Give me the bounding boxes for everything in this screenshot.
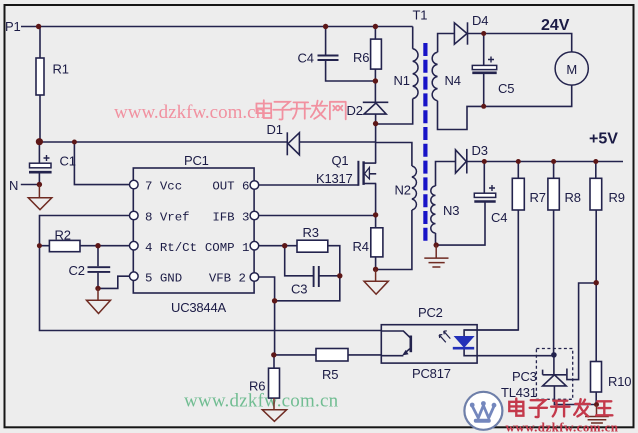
- resistor R1: [36, 58, 44, 95]
- wire snubber C4 branch: [326, 27, 376, 82]
- svg-text:PC3: PC3: [512, 369, 537, 384]
- svg-text:+5V: +5V: [589, 131, 618, 148]
- pin 3 circle: [250, 211, 259, 220]
- transistor Q1 K1317 MOSFET: [358, 161, 376, 186]
- wire N4 top to D4: [438, 34, 455, 53]
- wire R10 bottom: [595, 392, 597, 405]
- transformer T1 core: [423, 43, 427, 244]
- svg-text:D4: D4: [472, 13, 488, 28]
- svg-text:D1: D1: [267, 122, 283, 137]
- svg-text:C5: C5: [498, 81, 514, 96]
- wire C1 leads: [38, 142, 40, 185]
- svg-text:R2: R2: [55, 228, 71, 243]
- diode D2 clamp: [363, 102, 389, 114]
- resistor R8: [548, 178, 559, 210]
- wire N2 bottom: [376, 210, 412, 270]
- resistor R9: [590, 178, 602, 210]
- wire IFB3 to source node: [259, 215, 376, 217]
- motor M: [555, 52, 588, 85]
- wire VFB2 down to divider: [259, 277, 275, 355]
- svg-text:8 Vref: 8 Vref: [145, 210, 190, 224]
- wire R8 leads: [553, 162, 555, 355]
- TL431 symbol: [543, 370, 567, 386]
- wire branch to pin 7: [74, 142, 129, 185]
- resistor R3: [297, 240, 328, 252]
- svg-text:OUT 6: OUT 6: [212, 179, 249, 193]
- svg-text:R3: R3: [303, 225, 319, 240]
- svg-text:PC2: PC2: [418, 305, 443, 320]
- svg-text:T1: T1: [413, 8, 428, 23]
- wire R7 leads: [464, 162, 518, 331]
- svg-text:C1: C1: [60, 154, 76, 169]
- wire PC2 LED cathode to TL431: [464, 348, 554, 356]
- svg-text:24V: 24V: [541, 17, 570, 34]
- svg-text:R9: R9: [609, 190, 625, 205]
- PC2 LED: [453, 330, 519, 348]
- svg-text:www.dzkfw.com.cn: www.dzkfw.com.cn: [184, 391, 339, 412]
- capacitor C1 electrolytic: [29, 155, 52, 172]
- svg-text:C3: C3: [291, 282, 307, 297]
- winding N3: [431, 186, 436, 233]
- winding N4: [432, 52, 437, 100]
- svg-text:7 Vcc: 7 Vcc: [145, 179, 182, 193]
- svg-text:K1317: K1317: [316, 171, 353, 186]
- ground IEC below R10: [585, 405, 609, 424]
- winding N2: [412, 166, 417, 210]
- svg-text:C4: C4: [298, 51, 314, 66]
- svg-text:COMP 1: COMP 1: [205, 241, 250, 255]
- svg-text:PC817: PC817: [412, 366, 451, 381]
- resistor R7: [512, 178, 524, 210]
- wire 24V return via N4 bottom: [438, 85, 572, 129]
- wire Vcc rail to D1: [39, 141, 375, 143]
- svg-text:D2: D2: [347, 103, 363, 118]
- svg-text:C4: C4: [491, 210, 507, 225]
- svg-text:R7: R7: [530, 190, 546, 205]
- wire R2 leads and pin 4: [40, 245, 130, 247]
- svg-text:www.dzkfw.com.cn: www.dzkfw.com.cn: [114, 102, 266, 123]
- svg-text:N1: N1: [394, 73, 410, 88]
- wire N input: [21, 184, 40, 186]
- svg-text:N3: N3: [443, 203, 459, 218]
- ground below C2: [87, 288, 111, 313]
- svg-text:R6: R6: [249, 379, 265, 394]
- ground IEC below N3: [424, 245, 448, 267]
- PC2 light arrows: [439, 331, 450, 342]
- wire C3 branch: [285, 246, 340, 276]
- wire R1 leads: [39, 27, 41, 142]
- pin 6 circle: [250, 181, 259, 190]
- svg-text:N: N: [9, 178, 18, 193]
- wire N1 bottom to clamp node: [376, 99, 413, 124]
- winding N1: [413, 49, 418, 99]
- svg-text:5 GND: 5 GND: [145, 272, 182, 286]
- resistor R4: [371, 228, 383, 257]
- node TL431 cathode dot: [551, 352, 557, 358]
- pin 7 circle: [130, 180, 139, 189]
- wire R6 top leads: [374, 27, 376, 82]
- watermark top pink CJK 电子开发网: [256, 100, 345, 119]
- diode D1: [287, 132, 299, 155]
- capacitor C4 secondary electrolytic: [474, 185, 495, 202]
- wire pin8 Vref to left rail and long feedback wire to PC2: [40, 216, 382, 331]
- resistor R5: [316, 349, 348, 362]
- svg-text:VFB 2: VFB 2: [209, 272, 246, 286]
- pin 2 circle: [250, 273, 259, 282]
- PC2 phototransistor: [381, 331, 411, 356]
- wire drain line: [375, 124, 377, 164]
- ground below R4: [364, 269, 388, 294]
- wire C4 secondary leads: [436, 162, 485, 246]
- svg-text:R8: R8: [565, 190, 581, 205]
- svg-text:R4: R4: [353, 239, 369, 254]
- capacitor C5 electrolytic: [472, 57, 496, 73]
- wire COMP1 to R3/C3: [259, 246, 340, 276]
- svg-text:P1: P1: [5, 19, 21, 34]
- svg-text:IFB 3: IFB 3: [212, 210, 249, 224]
- svg-text:N4: N4: [445, 73, 461, 88]
- pin 8 circle: [130, 211, 139, 220]
- svg-text:R1: R1: [53, 62, 69, 77]
- wire OUT6 to gate: [259, 184, 359, 186]
- svg-text:www.dzkfw.com.cn: www.dzkfw.com.cn: [506, 420, 619, 433]
- capacitor C3: [314, 266, 319, 287]
- svg-text:4 Rt/Ct: 4 Rt/Ct: [145, 241, 197, 255]
- wire source to sense node: [375, 184, 377, 215]
- svg-text:R6: R6: [353, 50, 369, 65]
- resistor R6 bottom: [269, 368, 280, 398]
- wire +5V rail: [467, 161, 623, 163]
- wire N3 bottom: [435, 233, 437, 245]
- pin 1 circle: [250, 241, 259, 250]
- logo W circle: [464, 392, 502, 430]
- wire top AC rail from P1: [21, 26, 413, 28]
- wire N3 top to D3: [436, 162, 456, 187]
- svg-text:Q1: Q1: [332, 153, 349, 168]
- svg-text:D3: D3: [472, 143, 488, 158]
- wire C2 leads and pin 5 jog: [98, 246, 130, 289]
- svg-text:M: M: [566, 62, 577, 77]
- svg-text:UC3844A: UC3844A: [171, 300, 226, 315]
- resistor R2: [49, 240, 80, 251]
- diode D3: [456, 149, 467, 174]
- svg-text:C2: C2: [69, 263, 85, 278]
- optocoupler PC2 box: [381, 325, 477, 363]
- IC PC1 UC3844A box: [133, 168, 254, 293]
- wire D1 anode to N2 top: [376, 143, 412, 167]
- pin 4 circle: [130, 241, 139, 250]
- capacitor C2: [88, 267, 111, 272]
- resistor R6 top: [371, 39, 382, 69]
- wire R3C3 return to VFB line: [275, 276, 340, 301]
- diode D4: [454, 22, 467, 44]
- wire TL431 anode to ground node: [554, 386, 596, 405]
- wire C5 leads: [483, 34, 485, 107]
- wire ref branch to TL431: [567, 283, 596, 380]
- svg-text:N2: N2: [395, 183, 411, 198]
- wire D2 leads: [374, 81, 376, 124]
- wire R9 leads: [595, 162, 597, 362]
- logo CJK 电子开发王: [509, 399, 612, 418]
- svg-text:TL431: TL431: [501, 385, 537, 400]
- resistor R10: [591, 362, 602, 393]
- ground below C1: [28, 185, 52, 210]
- ground below R6 bottom: [262, 398, 286, 421]
- wire R4 leads: [375, 215, 377, 269]
- svg-text:PC1: PC1: [184, 153, 209, 168]
- wire TL431 cathode: [553, 355, 555, 375]
- wire N1 top lead: [412, 27, 414, 49]
- wire R5 leads: [274, 354, 382, 356]
- svg-text:R10: R10: [608, 374, 631, 389]
- wire D4 to 24V motor: [468, 34, 572, 52]
- svg-text:R5: R5: [322, 367, 338, 382]
- pin 5 circle: [130, 272, 139, 281]
- TL431 PC3 dashed box: [536, 349, 572, 400]
- wire R6 bottom lead: [273, 355, 275, 368]
- capacitor C4 snubber top: [318, 56, 339, 61]
